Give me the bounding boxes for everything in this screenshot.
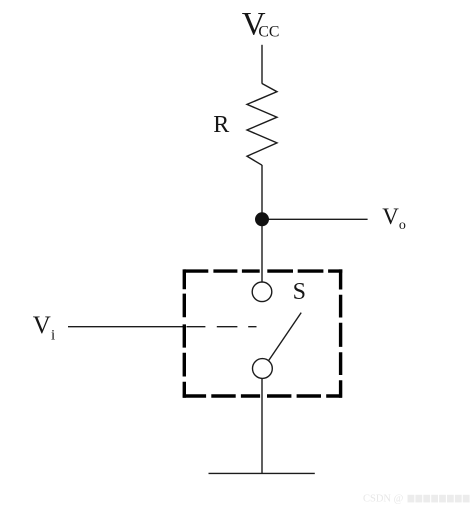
svg-text:o: o — [399, 218, 406, 233]
svg-text:V: V — [382, 204, 399, 229]
svg-text:CC: CC — [258, 24, 279, 41]
svg-text:i: i — [51, 328, 55, 344]
svg-text:R: R — [213, 112, 229, 138]
svg-text:CSDN @: CSDN @ — [363, 494, 404, 505]
svg-text:S: S — [293, 279, 306, 305]
svg-text:V: V — [33, 312, 51, 339]
